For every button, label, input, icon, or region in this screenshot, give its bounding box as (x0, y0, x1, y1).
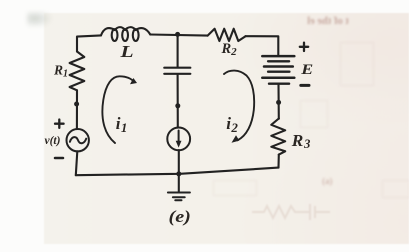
svg-text:R3: R3 (291, 131, 311, 151)
svg-text:E: E (300, 60, 313, 77)
svg-text:v(t): v(t) (45, 135, 61, 147)
svg-text:R2: R2 (221, 41, 238, 58)
svg-text:i2: i2 (226, 114, 238, 135)
svg-text:(e): (e) (169, 208, 191, 227)
svg-text:L: L (119, 43, 133, 61)
svg-text:i1: i1 (116, 114, 128, 135)
svg-text:R1: R1 (53, 63, 68, 80)
